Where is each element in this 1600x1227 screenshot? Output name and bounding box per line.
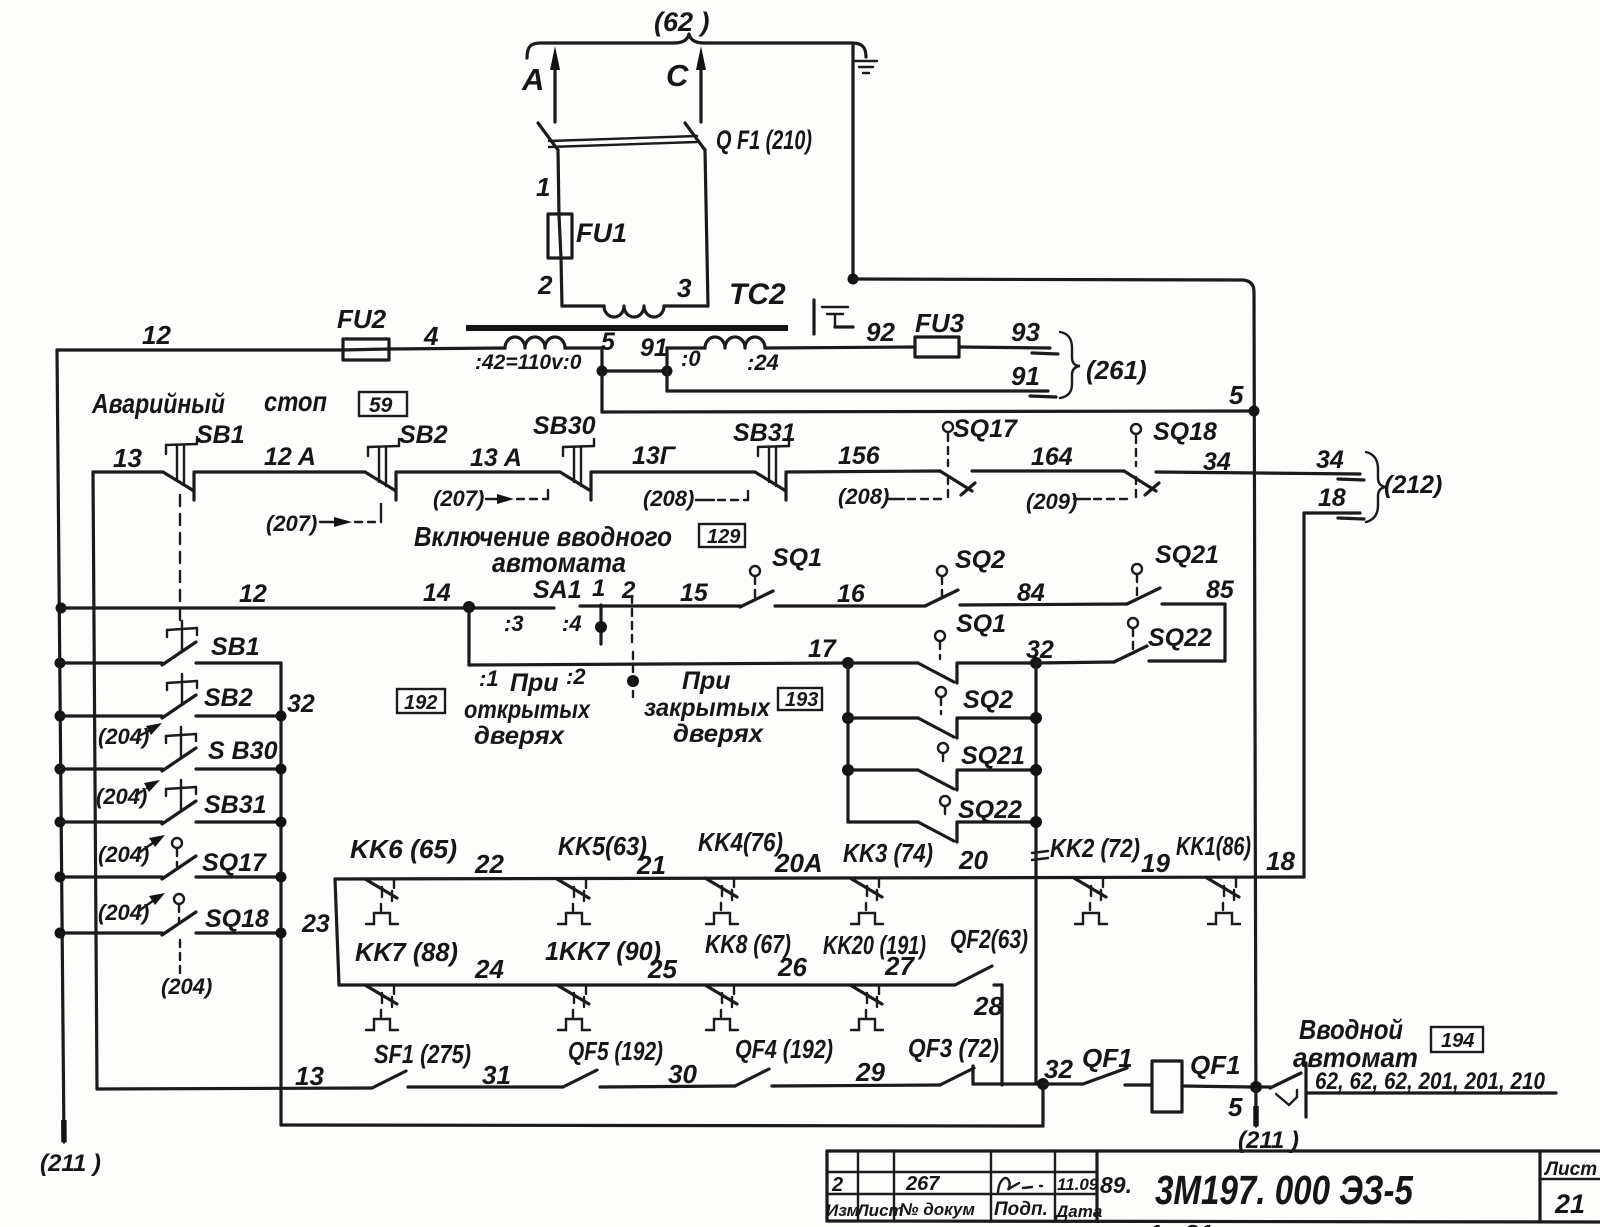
svg-text:Лист: Лист	[1543, 1159, 1597, 1180]
wire 13A	[396, 444, 560, 472]
svg-text:(204): (204)	[96, 784, 147, 809]
svg-text:KK4(76): KK4(76)	[698, 827, 783, 857]
label Аварийный стоп	[91, 386, 327, 419]
mech link dash SB1	[179, 495, 181, 623]
svg-text:5: 5	[1228, 1092, 1243, 1122]
switch SQ18 (column)	[55, 894, 287, 939]
svg-text::42=110v:0: :42=110v:0	[475, 351, 582, 374]
svg-text:KK2 (72): KK2 (72)	[1050, 833, 1140, 863]
svg-text:SF1 (275): SF1 (275)	[374, 1039, 471, 1069]
svg-text:11.09: 11.09	[1057, 1175, 1099, 1194]
transformer TC2 core	[466, 325, 788, 331]
wire 93	[959, 317, 1058, 354]
box 129	[699, 524, 745, 548]
svg-text:24: 24	[474, 954, 504, 984]
svg-text:5: 5	[601, 328, 616, 356]
svg-text:23: 23	[301, 910, 330, 938]
svg-text:(209): (209)	[1026, 489, 1077, 514]
svg-text:2: 2	[831, 1174, 843, 1196]
svg-text:SA1: SA1	[533, 576, 582, 604]
svg-text:129: 129	[707, 526, 741, 548]
svg-text:19: 19	[1141, 848, 1170, 878]
breaker QF5 contact	[563, 1036, 735, 1089]
svg-text:20A: 20A	[774, 848, 823, 878]
TC2 secondary winding 110v	[475, 337, 582, 374]
node 5 (coil)	[1228, 1081, 1299, 1154]
svg-text:QF4 (192): QF4 (192)	[735, 1034, 833, 1064]
earth wire from bracket	[848, 43, 1257, 1126]
thermal contact KK4	[705, 878, 738, 924]
svg-text:QF5 (192): QF5 (192)	[568, 1036, 663, 1066]
svg-text:2: 2	[537, 270, 553, 300]
svg-text:KK7 (88): KK7 (88)	[355, 937, 458, 967]
svg-text:26: 26	[777, 952, 807, 982]
svg-text:(208): (208)	[643, 486, 694, 511]
button SB31 (column)	[55, 780, 287, 828]
switch SQ21 (main row)	[1127, 541, 1219, 604]
wire 15	[580, 579, 740, 607]
svg-text:(207): (207)	[433, 486, 484, 511]
svg-text:32: 32	[1026, 636, 1054, 664]
svg-text:SQ1: SQ1	[772, 544, 822, 572]
svg-text:S B30: S B30	[208, 737, 278, 765]
ref (204) below SQ18	[161, 940, 212, 999]
ref (208) to SB31	[643, 486, 748, 511]
thermal contact KK5	[557, 879, 590, 924]
right column vertical 32	[281, 663, 315, 1125]
svg-text:3: 3	[677, 273, 692, 303]
svg-text:2: 2	[621, 577, 636, 604]
signature squiggle	[998, 1178, 1042, 1192]
svg-text:18: 18	[1266, 846, 1295, 876]
svg-text:FU3: FU3	[915, 308, 965, 338]
svg-text:164: 164	[1031, 443, 1073, 471]
svg-text:(211 ): (211 )	[40, 1150, 101, 1177]
switch SQ2 (door stack)	[842, 686, 1042, 738]
svg-text:156: 156	[838, 442, 881, 470]
svg-text:стоп: стоп	[264, 386, 327, 417]
svg-text:27: 27	[884, 951, 915, 981]
wire 13Г	[591, 442, 755, 472]
svg-text:Аварийный: Аварийный	[91, 388, 225, 419]
wire 16	[775, 580, 925, 608]
ref (208) to SQ17	[838, 474, 948, 509]
svg-text:25: 25	[647, 954, 677, 984]
svg-text:17: 17	[808, 635, 837, 663]
svg-text:62, 62, 62, 201, 201, 210: 62, 62, 62, 201, 201, 210	[1315, 1068, 1546, 1095]
svg-text:Дата: Дата	[1054, 1202, 1102, 1221]
svg-text:№ докум: № докум	[899, 1200, 975, 1219]
svg-text:22: 22	[474, 849, 504, 879]
button SB31 (top row)	[733, 419, 796, 500]
svg-text:13: 13	[113, 443, 142, 473]
svg-text:21: 21	[636, 850, 666, 880]
thermal contact KK2	[1074, 878, 1107, 924]
left bus vertical (to 211)	[40, 350, 101, 1177]
svg-text:SQ22: SQ22	[1148, 624, 1212, 652]
svg-text:SQ17: SQ17	[953, 415, 1018, 443]
svg-text:SB1: SB1	[196, 421, 245, 449]
node 14 junction	[463, 601, 475, 665]
svg-text:SQ18: SQ18	[1153, 418, 1217, 446]
breaker QF1 pole A blade	[538, 123, 558, 150]
button SB1 (column)	[55, 621, 282, 669]
ref (207) to SB2	[266, 504, 381, 536]
svg-text:28: 28	[973, 991, 1003, 1021]
svg-text:(62 ): (62 )	[654, 7, 710, 37]
svg-text:SB2: SB2	[399, 421, 448, 449]
screen bar + ground at TC2	[814, 300, 853, 334]
svg-text::4: :4	[562, 611, 582, 636]
wire 12A	[194, 443, 365, 472]
svg-text:84: 84	[1017, 579, 1045, 607]
svg-text:267: 267	[905, 1173, 940, 1195]
svg-text:SB1: SB1	[211, 633, 260, 661]
thermal contact KK6	[365, 879, 398, 924]
button SB30 (column)	[55, 727, 287, 775]
label При открытых дверях / box 192	[397, 669, 591, 750]
KK row 2 wire	[339, 983, 955, 986]
svg-text::24: :24	[747, 350, 779, 375]
svg-text:SQ17: SQ17	[202, 849, 267, 877]
svg-text:KK6 (65): KK6 (65)	[350, 834, 457, 864]
svg-text:18: 18	[1318, 484, 1346, 512]
svg-text:SQ21: SQ21	[1155, 541, 1219, 569]
wire 12	[57, 320, 343, 350]
wire 92	[765, 317, 915, 348]
breaker QF4 contact	[735, 1034, 940, 1087]
svg-text:(204): (204)	[98, 900, 149, 925]
KK row 1 wire	[335, 877, 1304, 879]
transformer TC2 primary	[562, 150, 786, 317]
wire node 2	[561, 258, 562, 306]
title block texts	[826, 1159, 1597, 1221]
svg-text:QF1: QF1	[1082, 1043, 1133, 1073]
phase A arrow	[521, 46, 560, 122]
svg-text:91: 91	[1011, 361, 1040, 391]
svg-text:3М197. 000 ЭЗ-5: 3М197. 000 ЭЗ-5	[1155, 1167, 1414, 1213]
svg-text:(207): (207)	[266, 511, 317, 536]
svg-text:При: При	[682, 667, 731, 695]
svg-text:14: 14	[423, 579, 451, 607]
svg-text:SQ2: SQ2	[955, 546, 1005, 574]
svg-text:SB31: SB31	[204, 791, 267, 819]
svg-text:Q F1 (210): Q F1 (210)	[716, 125, 812, 155]
svg-text:4: 4	[423, 321, 439, 351]
switch SQ17 (column)	[55, 838, 287, 883]
svg-text:(204): (204)	[98, 842, 149, 867]
breaker QF3 contact	[908, 1033, 1043, 1085]
switch SQ1 (door stack)	[848, 610, 1054, 683]
svg-text:(208): (208)	[838, 484, 889, 509]
svg-text:1 . 21: 1 . 21	[1148, 1219, 1213, 1227]
svg-text:KK5(63): KK5(63)	[558, 831, 647, 861]
svg-text:15: 15	[680, 579, 709, 607]
svg-text:При: При	[510, 669, 559, 697]
fuse FU1	[548, 214, 627, 258]
button SB30 (top row)	[533, 412, 596, 500]
svg-text::2: :2	[566, 664, 586, 689]
svg-text:открытых: открытых	[464, 696, 591, 724]
bottom bus	[281, 1084, 1043, 1126]
ref (207) to SB30	[433, 486, 548, 511]
switch SQ18 (top row)	[1124, 418, 1217, 495]
box 59	[359, 392, 407, 417]
door stack verticals	[848, 663, 1036, 1084]
svg-text:192: 192	[404, 692, 437, 714]
thermal contact KK1	[1207, 878, 1240, 924]
svg-text:30: 30	[668, 1059, 697, 1089]
fuse FU3	[915, 308, 965, 357]
thermal contact KK3	[850, 878, 883, 924]
svg-text:(261): (261)	[1086, 355, 1147, 385]
svg-text:TC2: TC2	[729, 278, 786, 311]
svg-text:34: 34	[1203, 448, 1231, 476]
KK row 3 (SF/QF row)	[97, 1061, 372, 1091]
KK row2 labels	[355, 924, 1028, 1021]
svg-text:SQ21: SQ21	[961, 742, 1025, 770]
breaker QF2 contact	[955, 966, 1002, 1085]
wire 17 (second row)	[469, 635, 854, 669]
thermal contact KK20	[850, 985, 883, 1030]
svg-text:29: 29	[855, 1057, 885, 1087]
wire 4	[389, 321, 505, 351]
svg-text:92: 92	[866, 317, 895, 347]
link 23	[301, 879, 339, 985]
wire 156	[786, 442, 940, 472]
svg-text:1: 1	[592, 575, 605, 602]
ground (top right)	[855, 61, 877, 73]
svg-text:12: 12	[239, 580, 267, 608]
svg-text:QF2(63): QF2(63)	[950, 924, 1028, 954]
svg-text:SQ1: SQ1	[956, 610, 1006, 638]
breaker SF1 contact	[372, 1039, 563, 1090]
label Включение вводного автомата	[414, 521, 672, 578]
svg-text:59: 59	[369, 394, 393, 417]
switch SQ1 (main row)	[740, 544, 822, 607]
wire node 1	[558, 150, 559, 215]
svg-text:QF1: QF1	[1190, 1050, 1241, 1080]
svg-text:13: 13	[295, 1061, 324, 1091]
svg-text:дверях: дверях	[474, 722, 565, 750]
thermal contact KK7	[365, 985, 398, 1030]
svg-text:KK1(86): KK1(86)	[1176, 831, 1251, 861]
KK row1 labels	[350, 827, 1295, 880]
svg-text:31: 31	[482, 1060, 511, 1090]
svg-text:34: 34	[1316, 446, 1344, 474]
wire 5 lower rail	[602, 371, 1260, 417]
button SB1 (top row)	[93, 421, 245, 500]
svg-text:(212): (212)	[1384, 471, 1442, 499]
svg-text:Лист: Лист	[855, 1201, 904, 1220]
svg-text:KK3 (74): KK3 (74)	[843, 838, 933, 868]
svg-text:32: 32	[1044, 1054, 1073, 1084]
svg-text:SQ22: SQ22	[958, 796, 1022, 824]
switch SQ21 (door stack)	[842, 742, 1042, 790]
switch SQ22 (bypass top)	[1036, 618, 1225, 663]
svg-text:SB30: SB30	[533, 412, 596, 440]
svg-text:32: 32	[287, 690, 315, 718]
svg-text:(204): (204)	[161, 974, 212, 999]
svg-text:SB2: SB2	[204, 684, 253, 712]
svg-text:Подп.: Подп.	[994, 1199, 1048, 1220]
label Вводной автомат	[1293, 1014, 1546, 1095]
node 5	[565, 328, 673, 377]
wire 84	[960, 579, 1127, 607]
selector SA1	[479, 575, 639, 697]
breaker QF1 pole C blade	[685, 123, 705, 150]
phase C arrow	[666, 46, 706, 122]
breaker QF1 aux contact	[1043, 1043, 1152, 1085]
svg-text:13 A: 13 A	[470, 444, 522, 472]
node 32	[1037, 1054, 1073, 1090]
svg-text:(204): (204)	[98, 724, 149, 749]
switch SQ2 (main row)	[925, 546, 1005, 606]
svg-text:Изм: Изм	[826, 1201, 860, 1220]
svg-text:91: 91	[640, 334, 668, 362]
svg-text:193: 193	[785, 689, 818, 711]
ref (204) to SB30	[96, 780, 160, 809]
svg-text:21: 21	[1554, 1189, 1585, 1219]
switch SQ22 (door stack)	[848, 796, 1042, 842]
svg-text:12 A: 12 A	[264, 443, 316, 471]
label При закрытых дверях / box 193	[644, 667, 822, 748]
wire 91	[667, 361, 1056, 397]
svg-text:SB31: SB31	[733, 419, 796, 447]
svg-text:85: 85	[1206, 576, 1235, 604]
main contact symbol (Вводной автомат)	[1262, 1063, 1556, 1117]
thermal contact KK8	[705, 985, 738, 1030]
svg-text:13Г: 13Г	[632, 442, 677, 470]
svg-text:C: C	[666, 58, 689, 93]
switch SQ17 (top row)	[940, 415, 1018, 495]
svg-text::0: :0	[681, 346, 701, 371]
svg-text:194: 194	[1441, 1030, 1474, 1052]
wire 13 (down to SF1 row)	[93, 443, 142, 1089]
thermal contact 1KK7	[557, 985, 590, 1030]
svg-text:1KK7 (90): 1KK7 (90)	[545, 936, 661, 966]
ref (204) to SB31	[98, 835, 165, 867]
svg-text::3: :3	[504, 611, 524, 636]
svg-text:89.: 89.	[1100, 1172, 1132, 1198]
TC2 secondary winding 24v	[667, 337, 779, 375]
wire 85	[1162, 576, 1235, 661]
button SB2 (top row)	[365, 421, 448, 500]
button SB2 (column)	[55, 674, 287, 722]
coil QF1	[1152, 1050, 1251, 1112]
svg-text:12: 12	[142, 320, 171, 350]
svg-text:автомата: автомата	[492, 547, 626, 578]
wire 34	[1156, 446, 1364, 480]
svg-text:SQ18: SQ18	[205, 905, 269, 933]
wire 164	[972, 443, 1124, 471]
QF1 linkage bar	[549, 136, 697, 147]
svg-text:A: A	[521, 62, 544, 97]
ref (204) to SQ17	[98, 893, 165, 925]
svg-text::1: :1	[479, 666, 499, 691]
wire 18 (to bracket)	[1304, 484, 1364, 877]
svg-text:16: 16	[837, 580, 866, 608]
svg-text:закрытых: закрытых	[644, 694, 771, 722]
svg-text:20: 20	[958, 845, 988, 875]
brace (212)	[1366, 452, 1442, 522]
fuse FU2	[337, 304, 389, 360]
svg-text:SQ2: SQ2	[963, 686, 1013, 714]
svg-text:93: 93	[1011, 317, 1040, 347]
svg-text:1: 1	[536, 172, 550, 202]
node (62) bracket	[527, 7, 866, 58]
wire 12 / 14 (main row)	[56, 579, 555, 614]
brace (261)	[1060, 332, 1147, 398]
ref (204) to SB2	[98, 723, 162, 749]
svg-text:FU2: FU2	[337, 304, 387, 334]
svg-text:FU1: FU1	[576, 218, 627, 248]
svg-text:5: 5	[1229, 380, 1244, 410]
svg-text:Вводной: Вводной	[1299, 1014, 1403, 1045]
svg-text:QF3 (72): QF3 (72)	[908, 1033, 999, 1063]
ref (209) to SQ18	[1026, 474, 1136, 514]
svg-text:дверях: дверях	[673, 720, 764, 748]
